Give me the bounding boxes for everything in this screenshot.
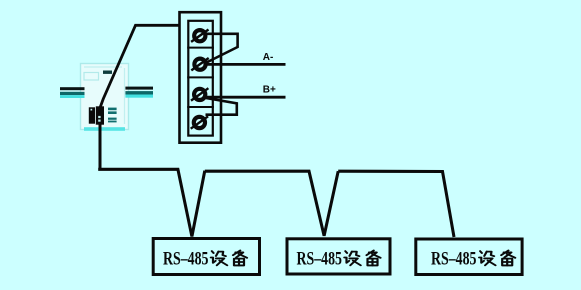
box1 glyph 设 [211,251,227,265]
box RS-485 device 2 [287,239,390,274]
converter device U1 body [81,64,129,131]
bus wire segment 1 and drop V to box1 [98,169,205,236]
cell divider 2 [187,76,214,78]
box3 glyph 设 [479,251,495,265]
svg-text:RS–485: RS–485 [297,250,343,270]
svg-text:B+: B+ [263,85,276,96]
screw 2 [191,58,208,70]
box1 glyph 备 [233,250,247,265]
cell divider 3 [187,106,214,108]
device faceplate detail rect [84,73,99,81]
device terminal bar left [89,107,95,123]
bus wire segment 2 and drop V to box2 [205,171,338,236]
DIN rail left segment [60,87,85,98]
wire A- [202,63,286,66]
screw 4 [191,116,208,128]
bus wire segment 3 and drop to box3 [338,171,454,237]
cell divider 1 [187,47,214,49]
jumper screw1-screw2 [203,34,238,64]
box3 glyph 备 [501,250,515,265]
device top label dash [103,71,112,74]
DIN rail right segment [125,87,153,98]
box2 glyph 设 [344,251,360,265]
device vent stripes [108,108,117,123]
svg-text:RS–485: RS–485 [163,250,209,270]
box RS-485 device 3 [416,239,522,275]
svg-text:A-: A- [263,52,274,63]
screw 1 [191,30,208,42]
wire B+ [202,96,286,99]
terminal block TB1 outer rect [180,12,222,143]
wire device down to bus [99,124,102,170]
box RS-485 device 1 [153,239,259,275]
jumper screw3-screw4 [203,98,237,115]
box2 glyph 备 [367,250,381,265]
svg-text:RS–485: RS–485 [431,250,477,270]
device terminal bar right [96,106,104,124]
wire device to terminal block [100,25,180,107]
terminal block inner rect [188,21,213,136]
screw 3 [191,88,208,100]
